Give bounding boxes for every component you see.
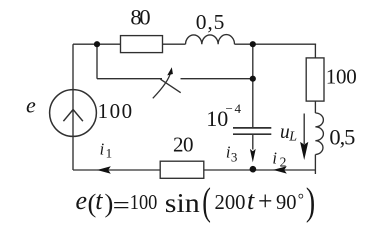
svg-text:0,5: 0,5	[329, 125, 355, 150]
svg-text:t: t	[95, 186, 103, 215]
svg-text:=: =	[113, 192, 130, 220]
svg-text:L: L	[288, 129, 297, 144]
svg-text:20: 20	[173, 133, 194, 157]
svg-text:i: i	[100, 140, 105, 159]
svg-text:e: e	[26, 93, 36, 118]
svg-text:3: 3	[231, 150, 238, 165]
svg-text:i: i	[272, 148, 277, 167]
svg-text:100: 100	[326, 65, 357, 89]
svg-text:80: 80	[130, 5, 150, 30]
svg-text:100: 100	[98, 99, 133, 123]
svg-text:2: 2	[280, 155, 287, 170]
svg-text:0,5: 0,5	[196, 10, 225, 34]
svg-text:sin: sin	[165, 188, 201, 218]
svg-text:200: 200	[215, 190, 246, 214]
svg-text:°: °	[298, 192, 304, 209]
svg-text:e: e	[76, 186, 88, 215]
svg-text:t: t	[247, 186, 255, 215]
svg-text:+: +	[258, 186, 273, 216]
svg-text:90: 90	[276, 190, 297, 214]
svg-text:): )	[306, 181, 315, 223]
svg-text:−4: −4	[226, 101, 242, 116]
svg-text:(: (	[202, 182, 211, 224]
svg-text:1: 1	[106, 146, 113, 161]
svg-text:100: 100	[130, 190, 158, 214]
